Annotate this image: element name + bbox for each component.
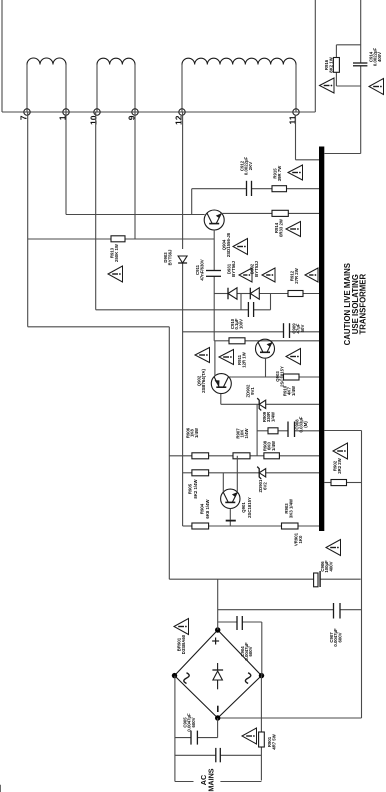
resistor R905 bbox=[192, 470, 209, 476]
svg-text:2SB764(TA): 2SB764(TA) bbox=[201, 369, 206, 393]
wire R913 line bbox=[28, 238, 111, 240]
warning Q903 bbox=[286, 349, 301, 365]
diode D931 bbox=[228, 288, 237, 300]
resistor R916 bbox=[333, 58, 339, 73]
svg-text:BYT56J: BYT56J bbox=[231, 261, 236, 277]
transistor Q901 bbox=[221, 489, 240, 508]
svg-text:1/4W: 1/4W bbox=[270, 411, 275, 422]
winding T901 pins 10-9 bbox=[96, 65, 98, 113]
transistor Q903 bbox=[256, 339, 275, 358]
wire C908/R909 line bbox=[257, 430, 268, 432]
warning D931 bbox=[239, 268, 252, 282]
svg-text:6V2: 6V2 bbox=[263, 482, 268, 490]
svg-text:BYT56J: BYT56J bbox=[167, 249, 172, 265]
hot ground bar bbox=[319, 147, 324, 532]
capacitor C909 bbox=[283, 323, 285, 338]
svg-text:MAINS: MAINS bbox=[207, 768, 216, 791]
svg-text:50V: 50V bbox=[300, 325, 305, 333]
warning BR901 bbox=[174, 619, 189, 635]
capacitor C914 bbox=[353, 65, 367, 67]
wire C905 to bridge bbox=[217, 718, 219, 738]
winding T901 pins 7-1 bbox=[26, 65, 28, 113]
warning R912 bbox=[305, 268, 318, 282]
capacitor C904 bbox=[236, 616, 238, 630]
svg-text:Q901: Q901 bbox=[241, 502, 246, 513]
winding T901 primary pins 12-11 bbox=[181, 65, 183, 113]
wire C909 line bbox=[183, 331, 284, 333]
svg-text:600V: 600V bbox=[248, 646, 253, 656]
svg-text:10: 10 bbox=[89, 115, 99, 125]
svg-text:47nF/630V: 47nF/630V bbox=[200, 259, 205, 280]
warning R901 bbox=[242, 728, 257, 744]
capacitor C906 bbox=[314, 573, 318, 587]
bridge ac tilde top bbox=[184, 673, 189, 684]
wire AC line 1 bbox=[175, 754, 216, 756]
resistor R913 bbox=[111, 236, 125, 242]
wire DC- long line bbox=[361, 431, 363, 719]
wire R906/R907/R908 line bbox=[169, 455, 192, 457]
capacitor C908 bbox=[287, 422, 289, 438]
svg-text:12R 1W: 12R 1W bbox=[242, 351, 247, 367]
svg-text:2R2 2W: 2R2 2W bbox=[337, 457, 342, 473]
bridge minus sign bbox=[217, 706, 219, 712]
zener ZD901 bbox=[259, 469, 266, 477]
svg-text:100V: 100V bbox=[238, 319, 243, 329]
svg-text:7: 7 bbox=[19, 115, 29, 120]
resistor R912 bbox=[288, 291, 303, 297]
resistor R908 bbox=[264, 453, 280, 459]
svg-text:9V1: 9V1 bbox=[250, 387, 255, 395]
pin 12 bbox=[179, 109, 185, 115]
svg-text:8K2 1W: 8K2 1W bbox=[328, 56, 333, 72]
pin 9 bbox=[132, 109, 138, 115]
svg-text:(M): (M) bbox=[303, 421, 308, 428]
svg-text:400V: 400V bbox=[377, 52, 382, 62]
wire pin1 lead bbox=[65, 112, 67, 215]
wire pin12/D903 line bbox=[182, 112, 184, 249]
svg-text:27R 2W: 27R 2W bbox=[294, 267, 299, 283]
resistor R916 branch bbox=[336, 44, 360, 46]
pin 1 bbox=[63, 109, 69, 115]
warning Q904 bbox=[233, 239, 248, 255]
svg-text:BYT53J: BYT53J bbox=[254, 261, 259, 277]
warning R902 bbox=[333, 443, 348, 459]
warning C914 bbox=[369, 79, 384, 95]
svg-text:250K 1W: 250K 1W bbox=[114, 243, 119, 262]
resistor R906 bbox=[192, 453, 209, 459]
warning C906 bbox=[326, 540, 341, 556]
wire ZD902 branch bbox=[256, 404, 258, 456]
svg-text:12: 12 bbox=[174, 115, 184, 125]
resistor R910 bbox=[284, 374, 300, 380]
wire C907 line bbox=[218, 609, 334, 611]
capacitor C907 bbox=[333, 603, 335, 619]
transistor Q902 bbox=[211, 374, 231, 394]
svg-text:400V: 400V bbox=[328, 561, 333, 571]
diode D903 bbox=[178, 256, 187, 263]
capacitor C912 bbox=[246, 181, 248, 196]
svg-text:D3SBA60: D3SBA60 bbox=[181, 634, 186, 654]
svg-text:R904: R904 bbox=[200, 503, 205, 514]
wire bridge minus rail bbox=[218, 717, 362, 719]
warning R916 bbox=[320, 78, 335, 93]
wire pin10 lead bbox=[95, 112, 97, 310]
resistor R904 bbox=[192, 523, 209, 529]
resistor R911 bbox=[229, 338, 245, 344]
wire D931/D902/R912 line bbox=[214, 293, 228, 295]
wire AC left vertical bbox=[174, 676, 176, 782]
wire ZD902 line bbox=[221, 403, 259, 405]
bridge plus sign bbox=[215, 638, 217, 645]
resistor R901 bbox=[259, 732, 265, 747]
svg-text:1/4W: 1/4W bbox=[291, 385, 296, 396]
svg-text:1/4W: 1/4W bbox=[244, 428, 249, 439]
wire bottom row line bbox=[183, 525, 192, 527]
wire Q904 base line bbox=[213, 276, 215, 341]
wire AC line 2 bbox=[175, 781, 194, 783]
wire C910 stubs bbox=[240, 294, 242, 310]
warning R915 bbox=[288, 165, 303, 180]
svg-text:3K3 1/4W: 3K3 1/4W bbox=[289, 498, 294, 518]
bridge internal diode bbox=[217, 680, 219, 689]
svg-text:2KV: 2KV bbox=[248, 162, 253, 170]
svg-text:0R33 2W: 0R33 2W bbox=[278, 218, 283, 237]
wire C904 branch bbox=[218, 621, 237, 623]
svg-text:R905: R905 bbox=[188, 483, 193, 494]
wire C910 line bbox=[96, 309, 249, 311]
resistor R915 bbox=[272, 186, 287, 192]
wire C912/R915 line bbox=[192, 188, 247, 190]
wire Q904 emitter line bbox=[222, 212, 273, 214]
bridge ac tilde bottom bbox=[245, 673, 250, 684]
svg-text:2SC1815Y: 2SC1815Y bbox=[247, 497, 252, 518]
node 11 branch wire bbox=[295, 115, 297, 160]
transformer T901 core/pin line bbox=[2, 111, 315, 113]
wire C914 line bbox=[360, 66, 362, 154]
resistor R914 bbox=[272, 210, 288, 216]
resistor R902 bbox=[324, 482, 331, 484]
capacitor C910 bbox=[247, 302, 249, 317]
wire R911/Q903 line bbox=[214, 340, 229, 342]
svg-text:2SC1815Y: 2SC1815Y bbox=[280, 366, 285, 387]
warning R914 bbox=[286, 222, 301, 237]
pin 10 bbox=[94, 109, 100, 115]
svg-text:8K2 1/4W: 8K2 1/4W bbox=[193, 479, 198, 499]
wire pin7 lead bbox=[27, 112, 29, 327]
wire right edge line bbox=[314, 0, 316, 112]
pin 7 bbox=[24, 109, 30, 115]
resistor R909 bbox=[268, 428, 278, 434]
capacitor X across mains bbox=[215, 748, 217, 762]
svg-text:TRANSFORMER: TRANSFORMER bbox=[359, 274, 368, 335]
wire R905/ZD901 line bbox=[183, 472, 192, 474]
zener ZD902 bbox=[259, 400, 266, 408]
resistor R907 bbox=[233, 453, 250, 459]
transistor Q904 bbox=[204, 210, 224, 230]
wire bar to C914 line bbox=[325, 153, 361, 155]
warning D902 bbox=[262, 268, 275, 282]
svg-text:4R7 5W: 4R7 5W bbox=[272, 733, 277, 749]
wire C905 line bbox=[175, 737, 191, 739]
capacitor C911 bbox=[206, 275, 221, 277]
svg-text:600V: 600V bbox=[337, 632, 342, 642]
diode D902 bbox=[250, 288, 259, 300]
svg-text:6K8 1/4W: 6K8 1/4W bbox=[205, 499, 210, 519]
wire bridge plus to C906 bbox=[217, 579, 219, 630]
wire bar to DC- line bbox=[324, 430, 361, 432]
svg-text:1/4W: 1/4W bbox=[194, 427, 199, 438]
svg-text:1/4W: 1/4W bbox=[271, 440, 276, 451]
wire DC+ rail bbox=[28, 326, 170, 328]
resistor R903 bbox=[282, 523, 299, 529]
bridge rectifier BR901 bbox=[175, 630, 262, 718]
wire R910 line bbox=[232, 376, 284, 378]
wire pin9 lead bbox=[134, 112, 136, 239]
svg-text:39R 7W: 39R 7W bbox=[277, 165, 282, 181]
warning R911 bbox=[219, 350, 234, 365]
wire R901 line bbox=[260, 747, 262, 781]
warning R913 bbox=[108, 266, 123, 282]
warning Q902 bbox=[195, 348, 210, 363]
capacitor C905 bbox=[190, 731, 192, 745]
svg-text:2SD1556-J8: 2SD1556-J8 bbox=[226, 232, 231, 257]
svg-text:1K0: 1K0 bbox=[298, 535, 303, 543]
svg-text:600V: 600V bbox=[191, 717, 196, 727]
wire top edge bbox=[1, 0, 3, 112]
pin 11 bbox=[293, 109, 299, 115]
